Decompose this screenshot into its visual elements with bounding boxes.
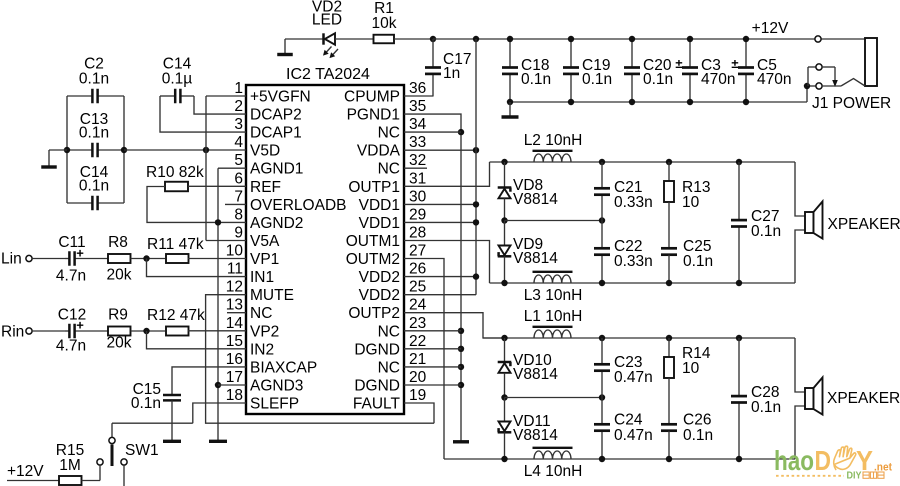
svg-text:+5VGFN: +5VGFN xyxy=(250,89,311,106)
wire block right rail xyxy=(123,96,125,203)
junction C28 top xyxy=(736,335,742,341)
resistor R10 xyxy=(165,182,188,192)
capacitor C17 xyxy=(432,39,434,68)
svg-text:34: 34 xyxy=(409,116,427,133)
inductor L2 xyxy=(534,154,571,162)
resistor R14 xyxy=(668,338,670,357)
svg-text:10: 10 xyxy=(682,360,700,377)
ground (C15) xyxy=(171,440,173,443)
svg-text:OUTP1: OUTP1 xyxy=(348,179,400,196)
svg-text:AGND1: AGND1 xyxy=(250,161,303,178)
inductor L1 xyxy=(534,330,571,338)
wire NC/DGND junctions xyxy=(458,328,464,334)
svg-text:L2 10nH: L2 10nH xyxy=(524,132,583,149)
wire NC pin13 stub xyxy=(227,312,246,314)
ground (LED cathode return) xyxy=(284,39,286,55)
ground (power rail) xyxy=(509,102,511,117)
svg-text:MUTE: MUTE xyxy=(250,287,294,304)
wire to speaker 1 minus xyxy=(795,230,805,283)
svg-text:0.1n: 0.1n xyxy=(582,71,612,88)
capacitor C22 xyxy=(601,221,603,249)
wire switch line xyxy=(112,422,193,424)
wire upper top rail xyxy=(490,161,796,163)
wire VDD1 pin30 stub xyxy=(404,203,476,205)
capacitor C11 xyxy=(65,258,69,260)
capacitor C27 xyxy=(738,162,740,220)
wire C14u right lead to DCAP2 xyxy=(194,96,246,114)
junction pin34 xyxy=(458,129,464,135)
capacitor C21 xyxy=(601,162,603,188)
svg-text:0.1n: 0.1n xyxy=(751,399,781,416)
svg-text:NC: NC xyxy=(378,161,400,178)
svg-text:+12V: +12V xyxy=(7,463,44,480)
wire lower bottom rail xyxy=(444,458,795,460)
svg-text:0.1n: 0.1n xyxy=(79,178,109,195)
svg-text:VP2: VP2 xyxy=(250,323,279,340)
wire node L to IN1 xyxy=(147,259,247,277)
wire SLEFP to switch line xyxy=(193,403,246,423)
junction AGND2 xyxy=(215,219,221,225)
svg-text:10: 10 xyxy=(226,243,244,260)
svg-text:R10 82k: R10 82k xyxy=(146,164,204,181)
svg-text:±: ± xyxy=(675,56,682,71)
wire OVERLOADB stub xyxy=(225,203,246,205)
svg-text:2: 2 xyxy=(234,98,243,115)
svg-text:29: 29 xyxy=(409,206,426,223)
wire to speaker 1 plus xyxy=(795,162,805,216)
wire OUTP2 to filter xyxy=(404,313,505,338)
wire Lin to C11 xyxy=(32,258,65,260)
diode VD9 V8814 xyxy=(504,221,506,246)
svg-text:Lin: Lin xyxy=(1,251,22,268)
svg-text:6: 6 xyxy=(234,170,243,187)
wire node R to IN2 xyxy=(147,331,247,349)
svg-text:31: 31 xyxy=(409,170,426,187)
capacitor C23 xyxy=(601,338,603,364)
svg-text:V8814: V8814 xyxy=(513,427,558,444)
junction lower mid rail left xyxy=(501,394,507,400)
svg-text:3: 3 xyxy=(234,116,243,133)
svg-text:NC: NC xyxy=(378,125,400,142)
svg-text:8: 8 xyxy=(234,206,243,223)
svg-text:LED: LED xyxy=(312,12,342,29)
wire OUTP1 to filter xyxy=(404,162,490,186)
svg-text:VDD2: VDD2 xyxy=(359,269,400,286)
junction VD10 top xyxy=(501,335,507,341)
wire block left rail xyxy=(66,96,68,203)
junction block left mid xyxy=(64,147,70,153)
wire C14u left lead to DCAP1 xyxy=(160,96,246,132)
svg-text:35: 35 xyxy=(409,98,426,115)
wire upper bottom rail xyxy=(490,282,796,284)
capacitor C12 xyxy=(65,330,69,332)
capacitor C25 xyxy=(661,247,677,250)
svg-text:L1 10nH: L1 10nH xyxy=(524,308,583,325)
terminal Lin xyxy=(26,255,32,261)
junction mid rail right xyxy=(599,217,605,223)
svg-text:J1 POWER: J1 POWER xyxy=(812,95,891,112)
svg-text:NC: NC xyxy=(250,305,272,322)
svg-text:IC2 TA2024: IC2 TA2024 xyxy=(286,66,370,83)
wire lower top rail xyxy=(483,337,795,339)
svg-text:14: 14 xyxy=(226,315,244,332)
svg-text:DIY: DIY xyxy=(847,471,862,482)
terminal +12V xyxy=(815,36,821,42)
resistor R12 xyxy=(166,327,189,336)
wire R9 to node R xyxy=(131,330,166,332)
junction C18 bottom xyxy=(507,99,513,105)
svg-text:0.1n: 0.1n xyxy=(79,71,109,88)
junction C3 top xyxy=(687,36,693,42)
svg-text:VDDA: VDDA xyxy=(357,143,401,160)
node J1 ground junction xyxy=(804,83,810,89)
junction VDD feed on rail xyxy=(473,36,479,42)
wire BIAXCAP to C15 xyxy=(172,367,246,395)
wire +5VGFN/V5A vertical xyxy=(205,96,207,241)
svg-text:10k: 10k xyxy=(372,15,397,32)
speaker XPEAKER 2 xyxy=(805,388,814,409)
svg-text:VDD1: VDD1 xyxy=(359,215,400,232)
wire V5D line xyxy=(124,149,246,151)
inductor L4 xyxy=(534,451,571,459)
wire VDDA stub xyxy=(404,149,476,151)
svg-text:4.7n: 4.7n xyxy=(56,268,86,285)
J1 arrow head xyxy=(832,80,838,87)
junction C20 top xyxy=(629,36,635,42)
capacitor C5 (polarized) xyxy=(745,39,747,68)
svg-text:hao: hao xyxy=(774,445,814,476)
wire R11 to VP1 xyxy=(188,258,247,260)
svg-text:CPUMP: CPUMP xyxy=(344,89,400,106)
svg-text:SW1: SW1 xyxy=(125,442,159,459)
wire R1 to node A xyxy=(394,38,433,40)
capacitor C3 (polarized) xyxy=(689,39,691,68)
svg-text:0.1n: 0.1n xyxy=(521,71,551,88)
junction R14 top xyxy=(666,335,672,341)
wire SW1 left contact down xyxy=(99,465,101,480)
junction C5 top xyxy=(743,36,749,42)
svg-text:R12 47k: R12 47k xyxy=(147,307,205,324)
svg-text:IN1: IN1 xyxy=(250,269,274,286)
junction VDD1 pin29 xyxy=(473,219,479,225)
svg-text:1M: 1M xyxy=(59,457,81,474)
wire lower mid rail xyxy=(505,397,603,399)
svg-text:C24: C24 xyxy=(614,412,643,429)
svg-text:19: 19 xyxy=(409,387,426,404)
svg-text:DGND: DGND xyxy=(354,378,400,395)
capacitor C19 xyxy=(570,39,572,68)
svg-text:R11 47k: R11 47k xyxy=(147,236,204,253)
wire CPUMP stub xyxy=(404,95,433,97)
svg-text:10: 10 xyxy=(682,194,700,211)
junction C18 top xyxy=(507,36,513,42)
wire R10 left to AGND2 row xyxy=(147,187,246,223)
svg-text:1: 1 xyxy=(234,80,243,97)
svg-text:36: 36 xyxy=(409,80,426,97)
svg-text:0.1n: 0.1n xyxy=(751,223,781,240)
svg-text:SLEFP: SLEFP xyxy=(250,396,299,413)
wire pin22 stub xyxy=(404,348,461,350)
wire R10 right to REF xyxy=(188,185,246,187)
svg-text:VDD2: VDD2 xyxy=(359,287,400,304)
svg-text:17: 17 xyxy=(226,369,243,386)
svg-text:26: 26 xyxy=(409,261,426,278)
junction block right mid xyxy=(121,147,127,153)
resistor R9 xyxy=(108,327,131,336)
svg-text:XPEAKER: XPEAKER xyxy=(827,390,900,407)
svg-text:33: 33 xyxy=(409,134,426,151)
capacitor C15 xyxy=(163,394,181,397)
wire R12 to VP2 xyxy=(188,330,247,332)
svg-text:20: 20 xyxy=(409,369,427,386)
svg-text:0.1n: 0.1n xyxy=(131,395,161,412)
svg-text:18: 18 xyxy=(226,387,243,404)
svg-text:11: 11 xyxy=(227,261,243,278)
junction C27 top xyxy=(736,159,742,165)
svg-text:C12: C12 xyxy=(58,307,86,324)
node A junction (R1/C17/CPUMP rail) xyxy=(430,36,436,42)
svg-text:0.47n: 0.47n xyxy=(614,369,653,386)
junction VDD2 pin26 xyxy=(473,273,479,279)
svg-text:NC: NC xyxy=(378,323,400,340)
switch SW1 xyxy=(109,437,115,443)
resistor R1 xyxy=(374,35,395,44)
svg-text:REF: REF xyxy=(250,179,281,196)
junction C5 bottom xyxy=(743,99,749,105)
svg-text:C26: C26 xyxy=(683,412,711,429)
svg-text:12: 12 xyxy=(226,279,243,296)
svg-text:21: 21 xyxy=(409,351,426,368)
svg-text:XPEAKER: XPEAKER xyxy=(828,216,900,233)
wire PGND1 to NC line xyxy=(404,114,461,441)
wire block mid to ground xyxy=(49,149,67,151)
wire SW1 right contact down xyxy=(123,465,125,486)
junction C26 bottom xyxy=(666,456,672,462)
svg-text:0.1n: 0.1n xyxy=(643,71,673,88)
wire pin20 stub xyxy=(404,384,461,386)
wire VDD2 pin26 stub xyxy=(404,276,476,278)
junction R13 top xyxy=(666,159,672,165)
wire Rin to C12 xyxy=(32,330,65,332)
svg-text:23: 23 xyxy=(409,315,426,332)
wire R15 to SW1 xyxy=(82,480,101,482)
svg-text:470n: 470n xyxy=(701,71,735,88)
svg-text:DGND: DGND xyxy=(354,341,400,358)
svg-text:±: ± xyxy=(731,56,738,71)
wire J1 center to arrow xyxy=(822,66,835,68)
svg-text:5: 5 xyxy=(234,152,243,169)
ground (analog ground line) xyxy=(217,440,219,443)
diode VD8 V8814 xyxy=(504,162,506,188)
junction C22 bottom xyxy=(599,280,605,286)
op-amp IC2 TA2024 body xyxy=(246,85,404,414)
junction C27 bottom xyxy=(736,280,742,286)
svg-text:OUTP2: OUTP2 xyxy=(348,305,400,322)
svg-text:16: 16 xyxy=(226,351,243,368)
junction VDDA xyxy=(473,147,479,153)
capacitor C20 xyxy=(631,39,633,68)
junction C19 top xyxy=(568,36,574,42)
svg-text:28: 28 xyxy=(409,225,426,242)
svg-text:C11: C11 xyxy=(58,234,85,251)
wire NC pin32 stub xyxy=(404,167,427,169)
svg-text:0.47n: 0.47n xyxy=(614,427,653,444)
svg-text:FAULT: FAULT xyxy=(353,396,401,413)
wire J1 sleeve xyxy=(810,85,816,87)
svg-text:0.1n: 0.1n xyxy=(79,125,109,142)
svg-text:R8: R8 xyxy=(108,234,128,251)
junction C20 bottom xyxy=(629,99,635,105)
svg-text:27: 27 xyxy=(409,243,426,260)
junction C21 top xyxy=(599,159,605,165)
haoDIY.net watermark logo xyxy=(774,445,892,482)
capacitor C14 (0.1u) xyxy=(160,95,175,97)
terminal J1 sleeve xyxy=(816,83,822,89)
junction C24 bottom xyxy=(599,456,605,462)
junction lower mid rail right xyxy=(599,394,605,400)
svg-text:Rin: Rin xyxy=(1,324,24,341)
inductor L3 xyxy=(534,275,571,283)
svg-text:20k: 20k xyxy=(107,335,132,352)
wire J1 center contact xyxy=(808,66,816,68)
svg-text:25: 25 xyxy=(409,279,426,296)
wire rail up to J1 ground node xyxy=(806,86,808,102)
svg-text:D: D xyxy=(815,445,832,476)
resistor R15 xyxy=(59,476,82,485)
svg-text:9: 9 xyxy=(234,225,243,242)
svg-text:4.7n: 4.7n xyxy=(56,338,86,355)
wire pin23 stub xyxy=(404,330,461,332)
svg-text:0.1n: 0.1n xyxy=(683,427,713,444)
capacitor C24 xyxy=(601,398,603,425)
svg-text:0.33n: 0.33n xyxy=(614,194,653,211)
resistor R13 xyxy=(668,162,670,181)
wire pin1 stub xyxy=(206,95,246,97)
junction VDD1 pin30 xyxy=(473,201,479,207)
svg-text:OVERLOADB: OVERLOADB xyxy=(250,197,346,214)
wire upper mid rail xyxy=(505,220,603,222)
svg-text:0.33n: 0.33n xyxy=(614,253,653,270)
ground (digital ground line) xyxy=(460,440,462,443)
wire AGND3 stub xyxy=(218,384,246,386)
svg-text:VP1: VP1 xyxy=(250,251,279,268)
junction mid rail left xyxy=(501,217,507,223)
capacitor C18 xyxy=(509,39,511,68)
svg-text:24: 24 xyxy=(409,297,427,314)
svg-text:VDD1: VDD1 xyxy=(359,197,400,214)
wire VDD1 pin29 stub xyxy=(404,221,476,223)
speaker XPEAKER 1 xyxy=(805,212,814,233)
svg-text:30: 30 xyxy=(409,188,427,205)
resistor R11 xyxy=(166,254,189,263)
terminal Rin xyxy=(26,328,32,334)
junction C19 bottom xyxy=(568,99,574,105)
capacitor C14 (lower 0.1n) xyxy=(67,202,92,204)
junction C28 bottom xyxy=(736,456,742,462)
diode VD10 V8814 xyxy=(504,338,506,362)
svg-text:V8814: V8814 xyxy=(513,366,558,383)
svg-text:7: 7 xyxy=(234,188,243,205)
node L junction xyxy=(143,255,149,261)
svg-text:PGND1: PGND1 xyxy=(347,107,400,124)
svg-text:22: 22 xyxy=(409,333,426,350)
wire to speaker 2 minus xyxy=(795,406,805,459)
wire OUTM1 to filter xyxy=(404,241,490,284)
junction C3 bottom xyxy=(687,99,693,105)
junction VD11 bottom xyxy=(501,456,507,462)
svg-text:DCAP1: DCAP1 xyxy=(250,125,302,142)
wire VDD2 pin25 stub xyxy=(404,294,476,296)
junction C23 top xyxy=(599,335,605,341)
capacitor C28 xyxy=(738,338,740,396)
J1 spring contact xyxy=(841,79,865,87)
svg-text:0.1n: 0.1n xyxy=(683,253,713,270)
wire +12V to R15 xyxy=(7,480,59,482)
svg-text:BIAXCAP: BIAXCAP xyxy=(250,359,317,376)
junction C25 bottom xyxy=(666,280,672,286)
LED VD2 xyxy=(322,33,325,44)
svg-text:20k: 20k xyxy=(107,267,132,284)
junction VD8 top xyxy=(501,159,507,165)
svg-text:OUTM1: OUTM1 xyxy=(346,233,400,250)
ground (analog cap block) xyxy=(48,150,50,167)
svg-text:4: 4 xyxy=(234,134,243,151)
wire VDD vertical xyxy=(475,39,477,295)
svg-text:V5A: V5A xyxy=(250,233,280,250)
junction VD9 bottom xyxy=(501,280,507,286)
wire MUTE to FAULT line xyxy=(206,295,434,424)
terminal J1 center xyxy=(816,64,822,70)
svg-text:L3 10nH: L3 10nH xyxy=(524,287,583,304)
svg-text:IN2: IN2 xyxy=(250,341,274,358)
connector J1 body xyxy=(865,38,877,86)
svg-text:V8814: V8814 xyxy=(513,191,558,208)
svg-text:NC: NC xyxy=(378,359,400,376)
capacitor C13 xyxy=(67,149,92,151)
wire pin9 stub xyxy=(206,240,246,242)
junction AGND3 xyxy=(215,382,221,388)
svg-text:1n: 1n xyxy=(443,65,460,82)
svg-text:470n: 470n xyxy=(757,71,791,88)
svg-text:V5D: V5D xyxy=(250,143,280,160)
svg-text:V8814: V8814 xyxy=(513,250,558,267)
node R junction xyxy=(143,328,149,334)
capacitor C2 xyxy=(67,95,92,97)
svg-text:OUTM2: OUTM2 xyxy=(346,251,400,268)
wire top +12V rail xyxy=(433,38,865,40)
capacitor C26 xyxy=(661,423,677,426)
wire switch line to SW1 xyxy=(111,423,113,437)
resistor R8 xyxy=(108,254,131,263)
wire analog ground vertical xyxy=(217,168,219,440)
wire pin21 stub xyxy=(404,366,461,368)
svg-text:0.1µ: 0.1µ xyxy=(162,71,193,88)
wire J1 sleeve to spring xyxy=(822,85,841,87)
wire R8 to node L xyxy=(131,258,166,260)
svg-text:32: 32 xyxy=(409,152,426,169)
node V5 junction xyxy=(203,147,209,153)
svg-text:+12V: +12V xyxy=(752,20,789,37)
wire OUTM2 to filter xyxy=(404,259,444,460)
svg-text:15: 15 xyxy=(226,333,243,350)
wire LED to R1 xyxy=(335,38,374,40)
svg-text:AGND3: AGND3 xyxy=(250,378,303,395)
svg-text:DCAP2: DCAP2 xyxy=(250,107,302,124)
wire bottom power rail xyxy=(510,101,807,103)
svg-text:13: 13 xyxy=(226,297,243,314)
wire AGND1 stub xyxy=(218,167,246,169)
svg-text:L4 10nH: L4 10nH xyxy=(524,463,583,480)
